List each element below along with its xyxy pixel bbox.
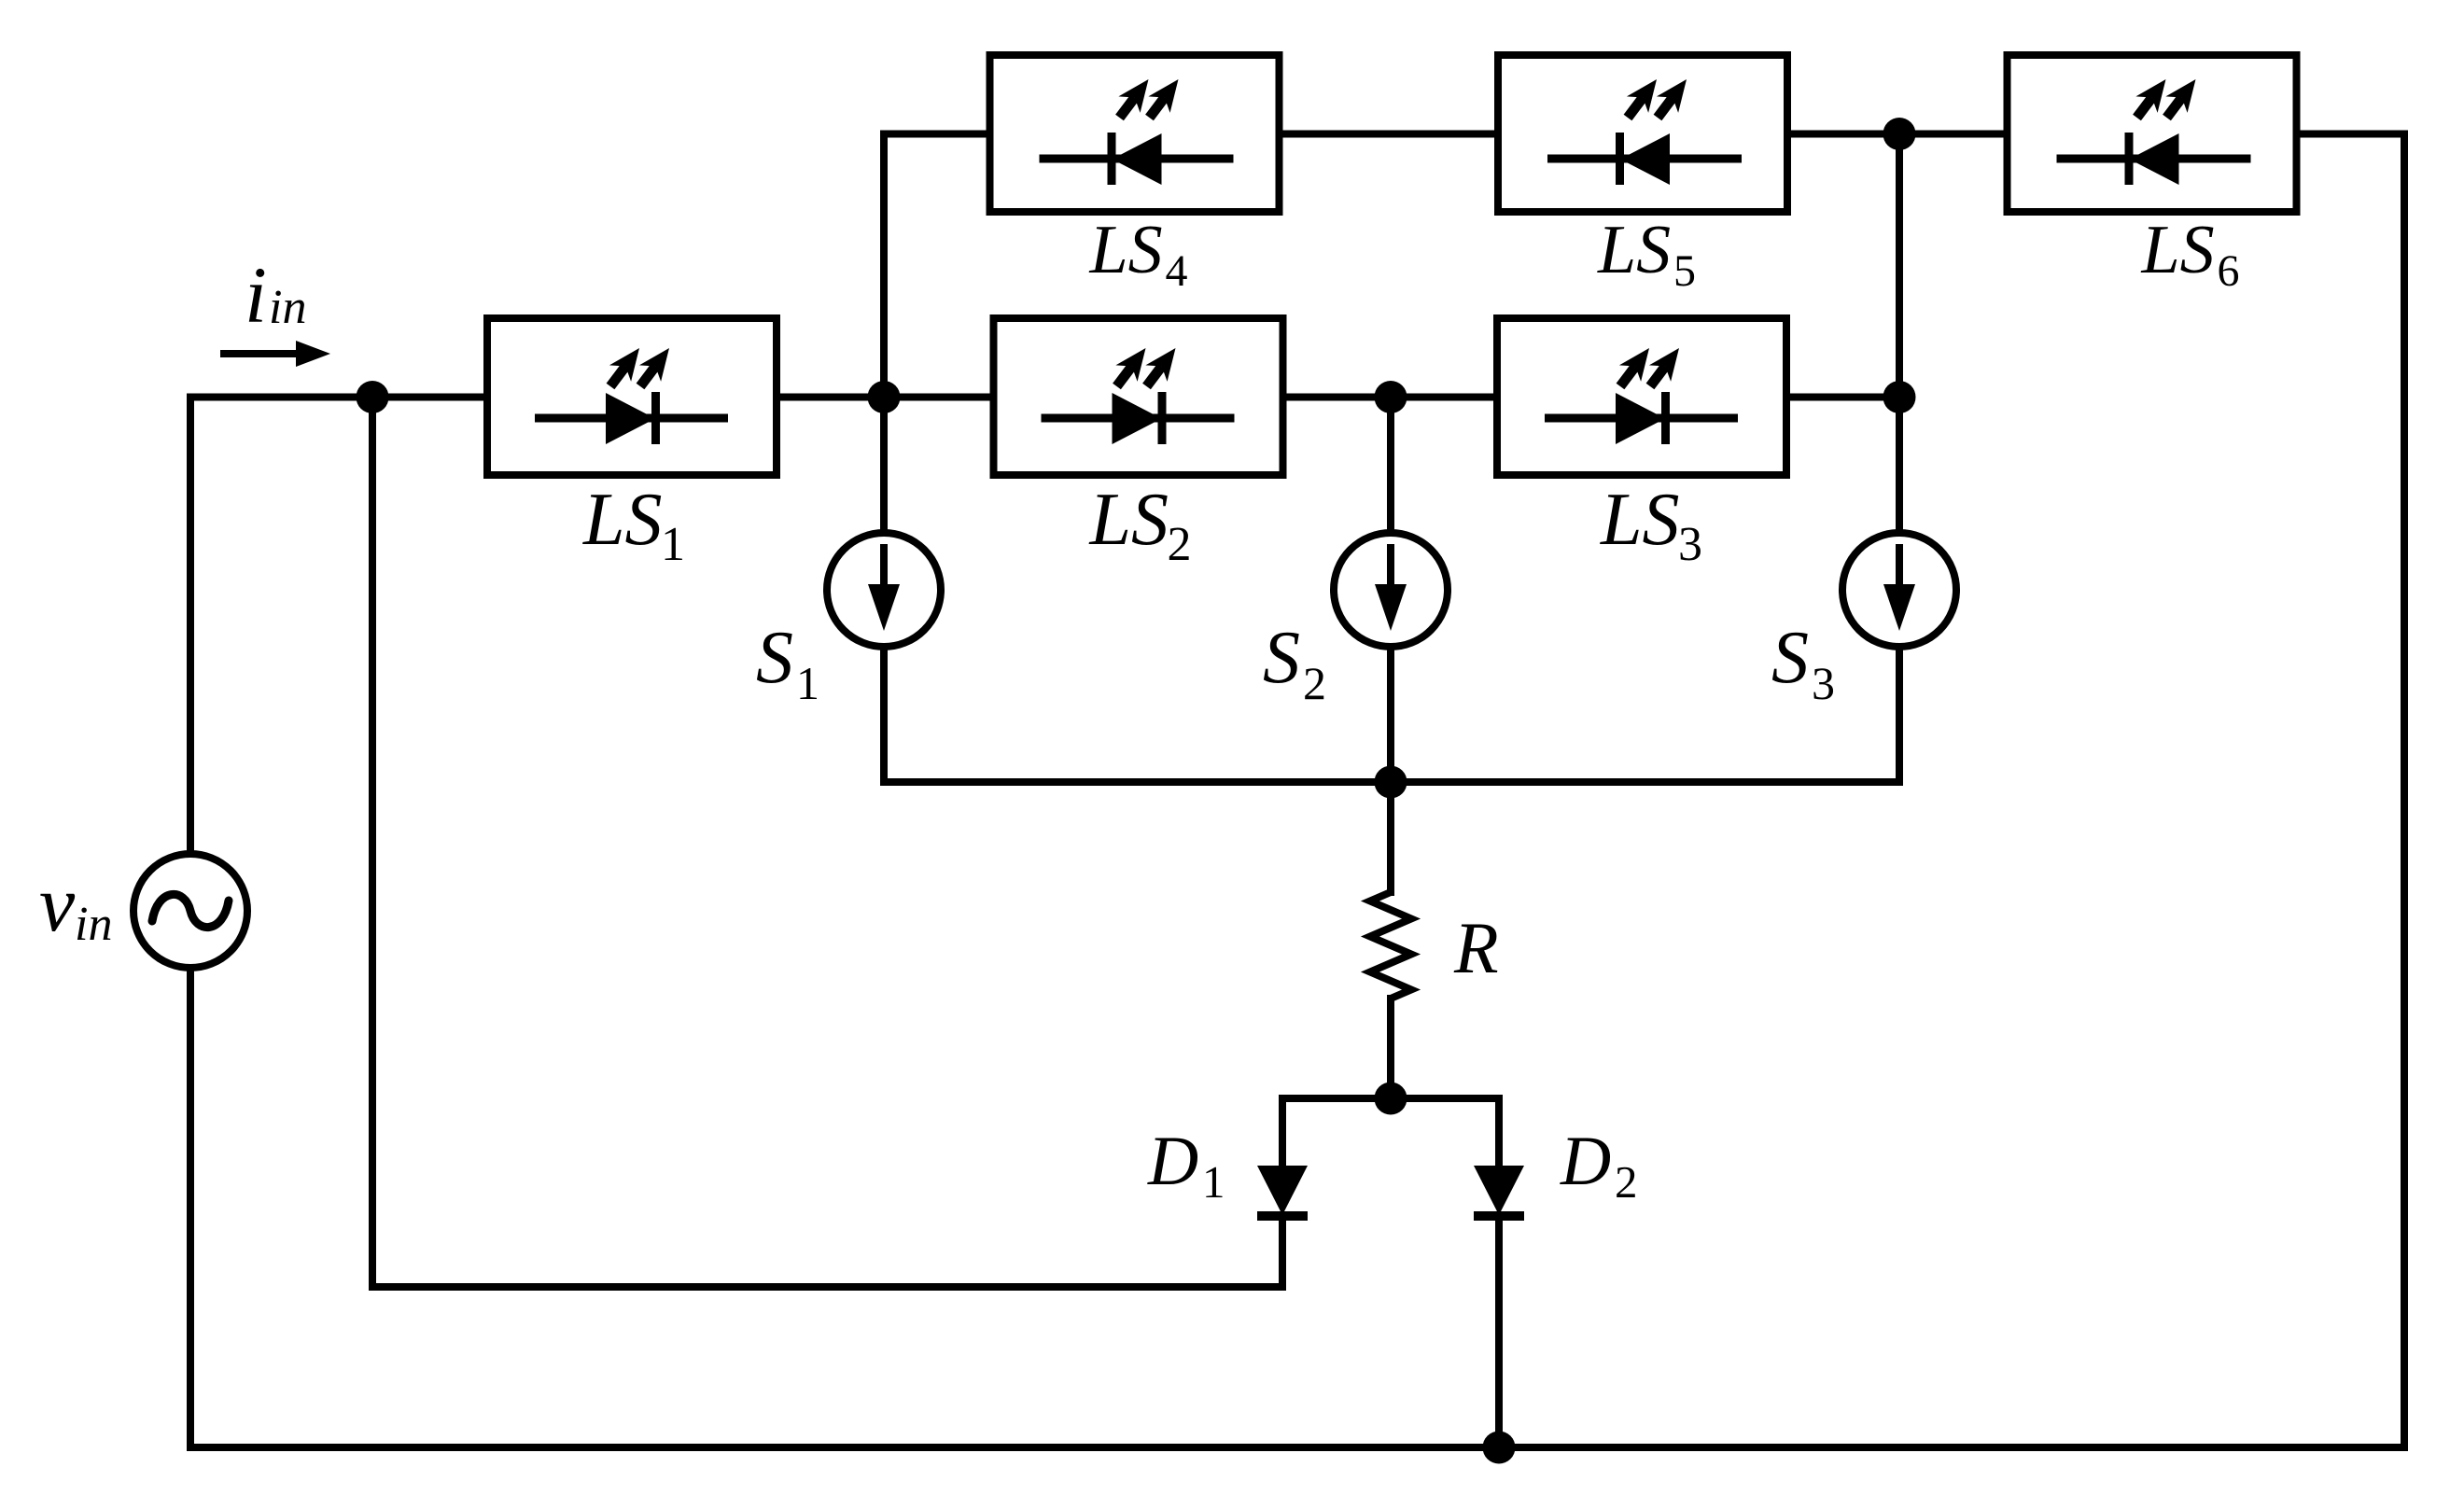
junction node R-diodes [1375, 1083, 1407, 1115]
resistor R [1370, 892, 1411, 999]
LED string LS5 [1498, 55, 1787, 296]
svg-text:in: in [75, 898, 112, 951]
svg-text:in: in [269, 281, 306, 334]
wire S3 lower lead [1896, 647, 1903, 782]
LED string LS4 [990, 55, 1280, 296]
wire D1 anode lead [1279, 1098, 1286, 1166]
svg-text:LS: LS [1089, 212, 1163, 288]
junction node D2-bottom rail [1483, 1432, 1516, 1464]
svg-text:6: 6 [2218, 246, 2240, 296]
svg-text:3: 3 [1678, 518, 1702, 571]
wire LS6 to right edge and down [2301, 134, 2404, 1448]
junction input node [357, 381, 389, 413]
current source S3 [1771, 533, 1956, 709]
diode D1 [1147, 1123, 1308, 1221]
wire D1 cathode lead and return to second vertical [372, 398, 1282, 1288]
svg-text:R: R [1453, 907, 1499, 988]
svg-text:1: 1 [796, 657, 819, 709]
wire input node to LS1 and down-left to source [190, 398, 482, 855]
junction node LS1-LS2-S1-LS4 [868, 381, 901, 413]
wire switch bottom rail [884, 778, 1899, 786]
svg-text:LS: LS [1600, 479, 1680, 561]
wire S3 branch vertical [1896, 134, 1903, 534]
wire LS1 to LS2 [782, 394, 990, 401]
junction node LS5-LS6 [1883, 118, 1916, 150]
wire diode header [1282, 1095, 1499, 1102]
LED string LS3 [1497, 318, 1786, 571]
svg-text:S: S [1771, 617, 1809, 699]
svg-text:LS: LS [582, 479, 663, 561]
svg-text:1: 1 [661, 518, 685, 571]
junction node rail-R [1375, 766, 1407, 799]
wire source bottom to bottom rail [190, 968, 2404, 1447]
wire S2 lower lead [1387, 647, 1394, 782]
wire S2 upper lead [1387, 398, 1394, 534]
svg-text:2: 2 [1168, 518, 1192, 571]
wire LS2 to LS3 [1286, 394, 1493, 401]
svg-text:D: D [1560, 1123, 1611, 1200]
svg-text:2: 2 [1303, 657, 1326, 709]
wire S1 lower lead [880, 647, 888, 782]
wire rail to resistor top [1387, 782, 1394, 892]
LED string LS1 [487, 318, 777, 571]
svg-text:LS: LS [1089, 479, 1169, 561]
svg-text:LS: LS [1597, 212, 1671, 288]
svg-text:S: S [756, 617, 793, 699]
wire resistor bottom to diode node [1387, 999, 1394, 1098]
current source S2 [1263, 533, 1448, 709]
junction node LS3-S3 [1883, 381, 1916, 413]
LED string LS6 [2008, 55, 2297, 296]
svg-text:1: 1 [1202, 1156, 1225, 1208]
wire LS5 to LS6 through node [1790, 131, 2003, 138]
input current arrow i_in [220, 250, 330, 367]
wire top header from LS4 down to input node [884, 134, 987, 398]
LED string LS2 [994, 318, 1283, 571]
wire LS4 to LS5 [1281, 131, 1495, 138]
wire D2 anode lead [1495, 1098, 1503, 1166]
wire S1 upper lead [880, 398, 888, 534]
svg-text:v: v [39, 859, 76, 948]
svg-text:3: 3 [1812, 657, 1835, 709]
svg-text:5: 5 [1673, 246, 1696, 296]
svg-text:D: D [1147, 1123, 1198, 1200]
junction node LS2-LS3-S2 [1375, 381, 1407, 413]
svg-text:i: i [245, 250, 267, 340]
diode D2 [1474, 1123, 1638, 1221]
svg-text:S: S [1263, 617, 1300, 699]
svg-text:LS: LS [2141, 212, 2215, 288]
current source S1 [756, 533, 941, 709]
AC voltage source v_in [39, 854, 247, 968]
svg-text:2: 2 [1615, 1156, 1638, 1208]
wire D2 cathode lead to bottom rail [1495, 1215, 1503, 1447]
wire LS3 to S3 branch [1790, 394, 1899, 401]
svg-text:4: 4 [1166, 246, 1188, 296]
